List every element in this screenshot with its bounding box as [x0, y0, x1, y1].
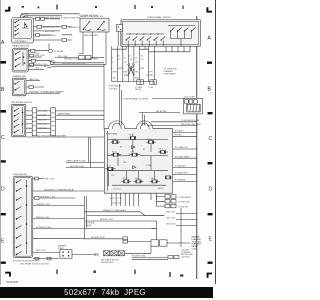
exit wire right r5: [173, 166, 197, 168]
top border tick 14: [56, 5, 58, 10]
riser pair left: [85, 196, 87, 239]
frame corner bracket bottom-right: [207, 273, 209, 278]
wire W15 dim row3: [26, 92, 60, 94]
svg-text:PNT TRC C100: PNT TRC C100: [45, 18, 60, 20]
svg-text:W/S WIPER SWITCH: W/S WIPER SWITCH: [11, 102, 33, 104]
flasher riser: [152, 221, 157, 240]
svg-text:TO IGN SWITCH BAT: TO IGN SWITCH BAT: [181, 119, 200, 122]
harness bundle line 1: [48, 61, 104, 63]
hazard drop wire 3: [104, 32, 106, 64]
connector C10 inline: [35, 177, 39, 180]
ts upper contact i: [185, 28, 189, 32]
key buzzer Z1: [117, 25, 123, 32]
ts contact f: [161, 37, 165, 47]
panel bottom drop 6: [133, 193, 135, 206]
left border row dash 3: [1, 160, 6, 162]
connector row C14: [185, 100, 189, 103]
connector stack K6: [171, 204, 176, 207]
svg-text:ORG: ORG: [135, 78, 140, 80]
mini connector bottom left a: [35, 257, 39, 260]
feed wire pair into bump2: [143, 113, 145, 126]
right border row dash 2: [208, 112, 213, 114]
svg-text:F4 20: F4 20: [112, 139, 116, 141]
wire stub to lamp L1: [48, 44, 50, 50]
right column wire rc1: [176, 213, 197, 215]
svg-text:DIMMER SW: DIMMER SW: [13, 76, 27, 78]
exit wire right r6: [173, 173, 197, 175]
top right wire 1: [151, 121, 197, 123]
ts drop wire 7: [148, 46, 150, 81]
connector C6b: [30, 63, 34, 66]
ign wire row7: [33, 238, 82, 240]
svg-text:TO B/U SW: TO B/U SW: [178, 206, 188, 208]
svg-text:BLK/RED TO T/S: BLK/RED TO T/S: [43, 27, 60, 29]
arrow symbol A2: [133, 166, 136, 169]
comb end connector CB: [150, 80, 157, 85]
exit wire right r1: [173, 131, 197, 133]
svg-text:TO RR LAMPS: TO RR LAMPS: [178, 196, 192, 199]
svg-text:16: 16: [118, 56, 120, 58]
ign wire row4 long: [33, 205, 85, 207]
wiper wires bundle rows: [26, 111, 51, 133]
ign wire row1: [33, 178, 44, 180]
switch contact S5g: [17, 235, 22, 238]
connector stack K1: [165, 195, 170, 198]
wire W5 row3: [33, 30, 44, 32]
connector row C16: [194, 100, 198, 103]
junction bar S5: [26, 180, 28, 254]
panel bottom drop 4: [124, 193, 126, 206]
svg-text:F6 25: F6 25: [112, 151, 116, 153]
switch contact S5b: [17, 188, 22, 191]
ts contact a: [126, 37, 130, 47]
turn signal switch S7 box: [121, 20, 200, 46]
hatched connector block C17: [187, 104, 200, 112]
fuse panel loop bump 1 inner: [112, 123, 121, 129]
switch contact S1a: [15, 20, 19, 22]
svg-text:GRN: GRN: [118, 68, 123, 70]
svg-text:TO HEATER: TO HEATER: [175, 179, 186, 182]
panel bottom drop 9: [155, 193, 157, 200]
svg-text:BLK/TAN: BLK/TAN: [38, 114, 47, 117]
svg-text:RADIO: RADIO: [158, 187, 164, 190]
svg-text:GRN/WHT TO TAIL LAMPS: GRN/WHT TO TAIL LAMPS: [103, 209, 127, 212]
svg-text:F3 15: F3 15: [159, 149, 163, 151]
svg-text:TO WARN LPS: TO WARN LPS: [175, 172, 189, 175]
inner bus row 1: [108, 139, 169, 141]
fuse panel top edge segment: [125, 128, 137, 130]
svg-text:82052898: 82052898: [6, 280, 18, 284]
right column wire rc2: [176, 219, 197, 221]
wire W4 row2: [33, 26, 59, 28]
mini connector N2: [123, 240, 128, 243]
wire W14 dim row2: [26, 86, 44, 88]
connector C19 inline: [62, 25, 66, 28]
panel bottom drop 5: [129, 193, 131, 206]
fuse F2: [130, 134, 136, 143]
ign wire row8: [33, 252, 60, 254]
ign wire row6: [33, 228, 85, 230]
svg-text:D: D: [1, 187, 5, 193]
svg-text:C: C: [209, 136, 213, 142]
wire W12 hl row5: [29, 69, 45, 71]
bottom border tick 12: [169, 272, 171, 277]
connector C1 inline: [36, 17, 40, 20]
frame corner bracket bottom-left: [5, 272, 11, 274]
vertical riser pair: [89, 137, 91, 168]
row wire y216: [87, 215, 165, 217]
right border row dash 3: [208, 162, 213, 164]
flasher M1 cell b: [160, 240, 168, 246]
svg-text:C100: C100: [35, 67, 40, 69]
wire W10 hl row3: [29, 60, 51, 62]
svg-text:C6: C6: [141, 59, 143, 61]
ground wire G100: [26, 136, 104, 138]
svg-text:BRN/YEL C100: BRN/YEL C100: [36, 217, 49, 219]
motor connector cell 3: [118, 251, 124, 256]
collector wire bottom: [112, 82, 155, 84]
wire W6 row4: [33, 34, 52, 36]
svg-text:PPL: PPL: [150, 72, 154, 74]
switch contact S1b: [15, 24, 19, 26]
connector stack K2: [171, 195, 176, 198]
svg-text:F5 4: F5 4: [131, 151, 134, 153]
connector C12: [79, 56, 85, 60]
connector C3 inline: [37, 25, 42, 28]
ts upper contact h: [178, 28, 182, 32]
sheet background: [0, 0, 216, 287]
svg-text:C3: C3: [124, 62, 126, 64]
ts internal bus: [126, 33, 164, 35]
fuse F11: [165, 176, 171, 179]
mini connector bottom left b: [47, 257, 51, 260]
svg-text:F1 5: F1 5: [129, 135, 132, 137]
inner bus row 3: [108, 156, 169, 171]
connector cluster outline: [184, 98, 203, 114]
bottom border tick 9: [56, 270, 58, 275]
switch contact S5e: [17, 216, 22, 219]
wire W9 hl row2: [29, 56, 43, 58]
svg-text:BLK/YEL C100: BLK/YEL C100: [70, 166, 85, 168]
connector C5b: [30, 54, 34, 57]
svg-text:C4: C4: [130, 59, 132, 61]
wire flasher to labels: [167, 242, 190, 244]
wire W11 hl row4: [29, 65, 47, 67]
fuse F3: [146, 141, 156, 144]
svg-text:YEL: YEL: [135, 72, 139, 74]
connector column C9: [51, 108, 56, 136]
svg-text:PNK C100: PNK C100: [166, 212, 175, 214]
exit wire right r3: [173, 148, 197, 150]
panel bottom drop 7: [138, 193, 140, 206]
connector br b: [174, 256, 179, 259]
left border row dash 4: [1, 213, 6, 215]
fuse F8: [121, 180, 131, 183]
svg-text:WHT C100: WHT C100: [36, 250, 45, 252]
fuse F4: [111, 153, 121, 156]
svg-text:C2: C2: [118, 59, 120, 61]
connector column C8: [32, 108, 36, 136]
comb end connector CA: [137, 80, 144, 85]
fuse F6: [158, 151, 168, 154]
svg-text:RED/WHT TO HEADLAMP DIMMER: RED/WHT TO HEADLAMP DIMMER: [30, 91, 65, 94]
stop light switch S1 box: [12, 18, 34, 43]
ts drop wire 1: [111, 46, 113, 81]
switch contact S4c: [15, 119, 20, 122]
svg-text:GRY C100: GRY C100: [166, 218, 175, 220]
wire W7 row5: [33, 39, 72, 41]
svg-text:F9 20: F9 20: [107, 166, 111, 168]
svg-text:HAZARD WARNING SW: HAZARD WARNING SW: [80, 15, 103, 18]
flasher M1 cell a: [151, 240, 159, 246]
svg-text:GRN BLK: GRN BLK: [38, 128, 47, 130]
connector C5 inline: [31, 49, 35, 52]
wire N to flasher: [128, 241, 151, 243]
fuse F9: [134, 180, 144, 183]
svg-text:F2 10: F2 10: [147, 139, 151, 141]
switch contact S5a: [17, 180, 22, 183]
switch contact S3a: [15, 81, 20, 84]
scan edge left: [0, 0, 1, 285]
inner bus row 4: [112, 184, 166, 186]
wiper wires to column bus: [55, 111, 104, 120]
ts drop wire 4: [127, 46, 129, 81]
connector C6 inline: [32, 59, 36, 62]
fuse F1: [110, 141, 120, 144]
splice crosshatch cluster: [128, 63, 136, 76]
svg-text:D: D: [209, 187, 213, 193]
right border row dash 4: [208, 213, 213, 215]
svg-text:HORN RELAY: HORN RELAY: [109, 85, 123, 88]
switch contact S1d: [15, 33, 19, 35]
svg-text:GRN C100: GRN C100: [35, 55, 46, 57]
connector C18 inline: [62, 39, 66, 42]
wire W8 hl row1: [29, 50, 49, 52]
svg-text:B R G Y T P W: B R G Y T P W: [110, 198, 122, 200]
row wire y221: [85, 220, 157, 222]
ts drop wire 6: [139, 46, 141, 81]
switch contact S5d: [17, 207, 22, 210]
ts right half drops below box: [149, 46, 190, 52]
connector stack K3: [165, 200, 170, 203]
svg-text:BRAKEWARN: BRAKEWARN: [21, 13, 29, 18]
bottom border tick 11: [134, 270, 136, 275]
scan edge right: [215, 0, 217, 284]
svg-text:BAT A1 RED: BAT A1 RED: [156, 110, 167, 113]
svg-text:HTR A/C: HTR A/C: [175, 134, 183, 137]
ts drop wire 8: [153, 46, 155, 81]
wire bottom left row: [33, 258, 59, 260]
connector stack K5: [165, 204, 170, 207]
right border row dash: [207, 62, 212, 64]
right border row dash 5: [208, 262, 213, 264]
left border row dash 2: [1, 110, 7, 113]
ignition switch S5 box: [13, 176, 33, 258]
svg-text:WHT/BLK C100 TO DASH HARNESS: WHT/BLK C100 TO DASH HARNESS: [64, 58, 98, 61]
headlight switch S2 box: [12, 48, 28, 72]
svg-text:TO CIGAR LTR: TO CIGAR LTR: [175, 146, 189, 149]
row wire y212: [85, 212, 165, 216]
bottom right wire br2: [132, 258, 168, 260]
ign wire row5 long: [33, 218, 85, 220]
svg-text:12: 12: [129, 56, 131, 58]
washer pump P1 box: [60, 250, 72, 259]
left border row dash: [1, 61, 7, 64]
wire W4 extension: [59, 26, 72, 28]
exit wire right r7: [173, 180, 197, 182]
junction bar S4: [22, 108, 24, 134]
svg-text:YEL C100: YEL C100: [45, 178, 55, 180]
feed wire pair into bump1: [120, 84, 122, 126]
panel bottom drop 2: [115, 193, 117, 206]
connector C7 inline: [29, 86, 33, 89]
switch contact S5f: [17, 226, 22, 229]
connector row C15: [189, 100, 193, 103]
top border tick 17: [151, 6, 153, 8]
svg-text:C5: C5: [135, 62, 137, 64]
switch contact S1c: [15, 29, 19, 31]
connector stack K4: [171, 200, 176, 203]
hazard drop wire 2: [92, 32, 94, 58]
panel bottom drop 3: [119, 193, 121, 206]
svg-text:TURN SIGNAL SWITCH: TURN SIGNAL SWITCH: [147, 16, 171, 19]
svg-text:B2: B2: [143, 149, 145, 151]
lamp L1: [49, 49, 53, 53]
frame corner bracket top-right: [206, 7, 208, 12]
bottom right wire br1: [132, 256, 168, 258]
svg-text:C101 C102: C101 C102: [112, 203, 121, 205]
fuse F10: [150, 180, 160, 183]
svg-text:C100 CONN: C100 CONN: [184, 97, 195, 99]
top border tick 18: [182, 6, 184, 10]
frame corner bracket top-left: [8, 7, 10, 12]
svg-text:RED WHT: RED WHT: [38, 119, 48, 121]
fuse F5: [130, 153, 140, 156]
ts upper contact j: [192, 28, 196, 32]
svg-text:TO FUEL GA: TO FUEL GA: [178, 201, 190, 204]
svg-text:15: 15: [135, 58, 137, 60]
fuse panel loop bump 2 inner: [140, 123, 149, 129]
svg-text:F10: F10: [135, 178, 138, 180]
switch contact S2a: [16, 51, 21, 54]
wiper switch S4 box: [11, 104, 25, 137]
svg-text:BLK/RED PNK GRY C100: BLK/RED PNK GRY C100: [62, 63, 86, 65]
svg-text:GRN/RED C100: GRN/RED C100: [36, 204, 50, 206]
svg-text:BLK GROUND G100 BLK/WHT: BLK GROUND G100 BLK/WHT: [37, 135, 67, 137]
top right wire 2: [147, 125, 197, 127]
svg-text:RED: RED: [124, 72, 129, 74]
svg-text:16: 16: [141, 56, 143, 58]
wire W2 second feed: [24, 16, 63, 18]
ts drop wire 3: [122, 46, 124, 81]
svg-text:W/S: W/S: [94, 254, 99, 257]
top border tick 16: [134, 5, 136, 9]
svg-text:RED/YEL C100: RED/YEL C100: [33, 64, 48, 66]
junction dots S1: [25, 24, 27, 26]
switch lever S6b: [98, 22, 104, 30]
switch contact S4d: [15, 124, 20, 127]
svg-text:C100: C100: [149, 87, 154, 89]
ts contact b: [133, 37, 137, 47]
right column wire rc3: [176, 225, 197, 227]
svg-text:FUSE PANEL: FUSE PANEL: [106, 132, 118, 135]
panel bottom drop 1: [111, 193, 113, 206]
wire W5 extension: [44, 31, 72, 35]
vertical bus to fuse panel: [103, 64, 105, 128]
svg-text:TAN C100: TAN C100: [29, 78, 39, 81]
wire W1 top feed: [20, 14, 80, 18]
connector C2 inline: [41, 17, 45, 20]
dimmer switch S3 box: [12, 78, 26, 96]
top border tick 12: [22, 6, 25, 8]
svg-text:BLK/PNK C100: BLK/PNK C100: [91, 237, 104, 239]
ts stub links: [112, 46, 149, 49]
bottom border tick 10: [94, 271, 96, 274]
svg-text:PPL C100: PPL C100: [58, 56, 68, 58]
wire W3 row1: [33, 18, 60, 20]
hazard feed wire: [55, 57, 79, 59]
fuse panel U1 body: [104, 129, 172, 194]
connector C13: [85, 56, 91, 60]
stack wires: [156, 197, 165, 207]
ts lower collector: [171, 39, 192, 47]
inner bus row 2: [108, 155, 131, 157]
ts contact e: [154, 37, 158, 47]
wire row y239: [82, 238, 123, 240]
ts contact d: [147, 37, 151, 47]
svg-text:TO INSTRUMENT CLUSTER: TO INSTRUMENT CLUSTER: [122, 98, 149, 100]
hazard switch S6 box: [80, 18, 109, 32]
wire pump to motor: [72, 253, 94, 255]
hazard drop wire 1: [79, 32, 83, 54]
top border tick 13: [38, 7, 40, 9]
svg-text:RED/WHT C100: RED/WHT C100: [40, 35, 56, 37]
svg-text:BRN C100: BRN C100: [38, 124, 48, 126]
junction dots S2: [23, 56, 25, 58]
row wire y228: [85, 228, 157, 230]
ts upper contact g: [171, 28, 175, 32]
svg-text:TO RADIO: TO RADIO: [175, 130, 185, 133]
fuse panel loop bump 2 outer: [137, 121, 153, 129]
ts drop wire 5: [133, 46, 135, 81]
svg-text:TO STOP LIGHT SW: TO STOP LIGHT SW: [61, 17, 81, 19]
svg-text:RED FUSE LINK 14GA: RED FUSE LINK 14GA: [181, 123, 201, 126]
ts drop wire 2: [116, 46, 118, 81]
svg-text:GRD STRAP TO BODY C101 BLK: GRD STRAP TO BODY C101 BLK: [20, 262, 50, 265]
switch contact S5h: [17, 245, 22, 248]
svg-text:TO HORN: TO HORN: [54, 51, 64, 53]
switch contact S2b: [16, 57, 21, 60]
svg-text:TAN: TAN: [140, 67, 144, 70]
svg-text:BLK/WHT C100: BLK/WHT C100: [40, 196, 56, 198]
top border tick 15: [95, 6, 97, 8]
fuse panel U1 shade: [104, 129, 172, 194]
mini connector N1: [123, 237, 128, 240]
internal link wires: [108, 142, 154, 186]
ts contact c: [140, 37, 144, 47]
svg-text:RED/GRN TO STARTER RELAY: RED/GRN TO STARTER RELAY: [44, 188, 75, 191]
svg-text:BLK/GRN TO ACC: BLK/GRN TO ACC: [36, 226, 52, 229]
svg-text:14: 14: [111, 58, 113, 60]
svg-text:TO GAUGES: TO GAUGES: [175, 165, 187, 168]
connector C11 inline: [35, 197, 39, 200]
svg-text:C1 C2 C3: C1 C2 C3: [113, 189, 120, 191]
left border row dash 5: [1, 262, 6, 264]
switch lever S6a: [84, 22, 90, 30]
svg-text:18: 18: [124, 58, 126, 60]
svg-text:HEADLIGHT SW: HEADLIGHT SW: [13, 44, 31, 47]
right column vertical feeder: [180, 208, 182, 247]
